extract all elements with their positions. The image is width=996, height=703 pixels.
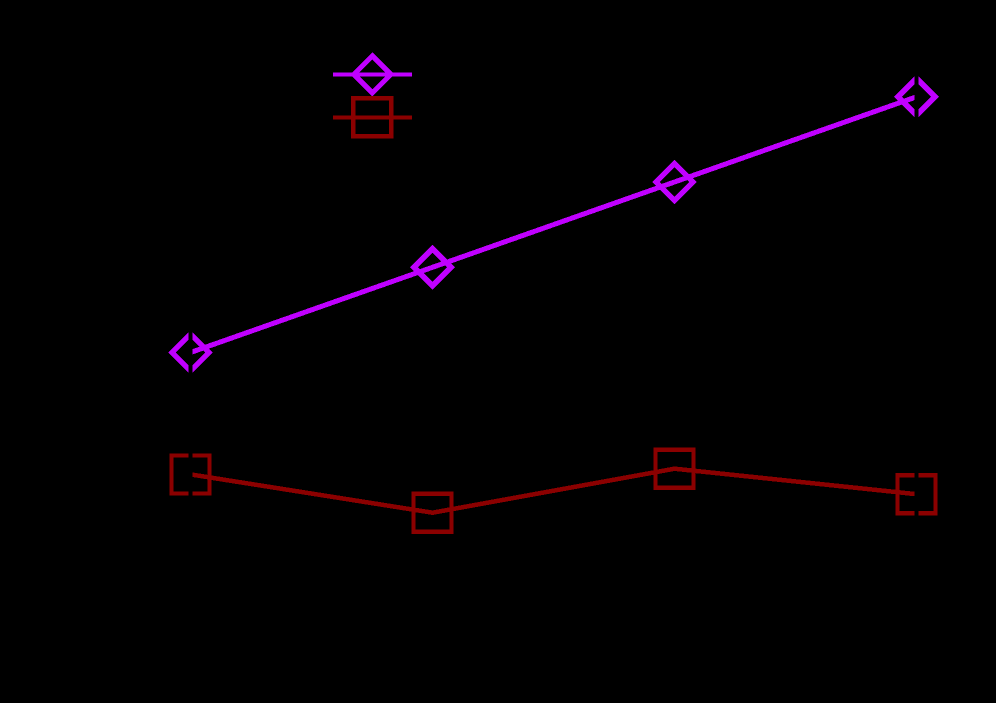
series 2 marker point 3 [656, 450, 694, 488]
legend series 1 sample line [333, 72, 412, 76]
series 2 line (dark red, squares) [191, 469, 917, 513]
series 2 marker point 4 [898, 475, 936, 513]
series 2 marker point 2 [414, 494, 452, 532]
series 1 line (magenta, diamonds) [191, 97, 917, 353]
series 1 marker point 4 [898, 78, 935, 115]
series 1 marker point 3 [656, 164, 693, 201]
series 2 marker point 1 [172, 455, 210, 493]
right axis spine (black, over markers) [915, 60, 919, 635]
left axis spine (black, over markers) [189, 60, 193, 635]
series 1 marker point 2 [414, 249, 451, 286]
series 1 marker point 1 [172, 334, 209, 371]
legend series 1 diamond [354, 56, 391, 93]
legend series 2 square [353, 98, 391, 136]
legend series 2 sample line [333, 115, 412, 119]
